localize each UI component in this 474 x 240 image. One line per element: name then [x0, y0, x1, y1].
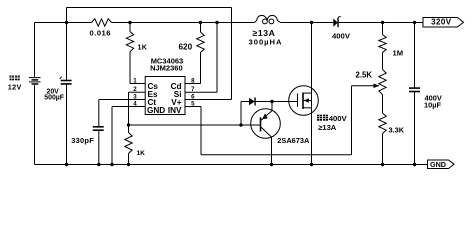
- svg-text:GND: GND: [147, 106, 165, 115]
- svg-text:6: 6: [191, 93, 195, 100]
- svg-text:3.3K: 3.3K: [389, 126, 405, 135]
- svg-text:330pF: 330pF: [71, 136, 94, 145]
- svg-text:8: 8: [191, 77, 195, 84]
- svg-text:GND: GND: [430, 160, 446, 169]
- svg-text:400V: 400V: [332, 31, 351, 40]
- svg-text:4: 4: [133, 100, 137, 107]
- svg-text:1K: 1K: [137, 150, 146, 157]
- svg-text:320V: 320V: [431, 18, 452, 27]
- svg-text:≥13A: ≥13A: [318, 123, 337, 132]
- svg-text:INV: INV: [168, 106, 182, 115]
- svg-text:1: 1: [133, 77, 137, 84]
- svg-text:0.016: 0.016: [90, 28, 112, 37]
- svg-text:2: 2: [133, 86, 137, 93]
- svg-text:10µF: 10µF: [424, 100, 441, 109]
- svg-text:7: 7: [191, 86, 195, 93]
- svg-text:NJM2360: NJM2360: [150, 63, 183, 72]
- svg-text:620: 620: [179, 42, 193, 51]
- svg-text:1M: 1M: [393, 48, 404, 57]
- svg-text:300µHA: 300µHA: [249, 37, 283, 46]
- svg-text:400V: 400V: [329, 114, 348, 123]
- svg-text:2.5K: 2.5K: [356, 71, 373, 80]
- svg-text:5: 5: [191, 100, 195, 107]
- svg-text:12V: 12V: [8, 82, 22, 91]
- svg-text:1K: 1K: [138, 42, 148, 51]
- svg-text:3: 3: [133, 93, 137, 100]
- svg-text:500µF: 500µF: [44, 95, 64, 102]
- svg-text:2SA673A: 2SA673A: [277, 136, 310, 145]
